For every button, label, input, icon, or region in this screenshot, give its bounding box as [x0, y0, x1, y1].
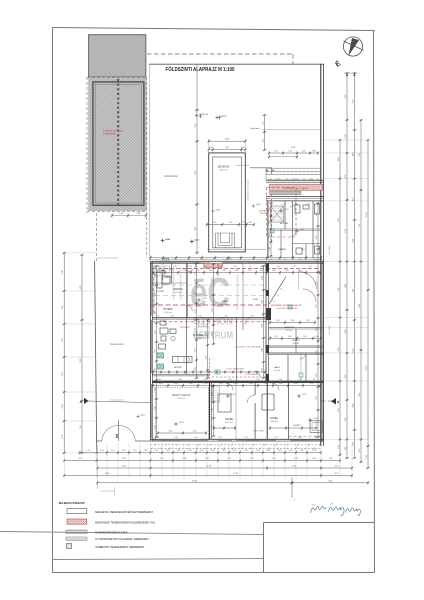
svg-text:7,15: 7,15 — [359, 224, 361, 228]
svg-text:1,30: 1,30 — [272, 270, 276, 272]
tiny text row — [268, 177, 319, 180]
svg-text:KIVÁLTÁS SZÜKSÉGES: KIVÁLTÁS SZÜKSÉGES — [277, 307, 299, 310]
svg-text:2,70: 2,70 — [316, 422, 318, 426]
svg-text:5,60: 5,60 — [338, 288, 340, 292]
svg-text:1,55: 1,55 — [338, 445, 340, 449]
left dim chain outer — [62, 252, 66, 454]
svg-text:1,45: 1,45 — [278, 379, 281, 381]
red dashed axis — [271, 194, 273, 243]
dashed plot lines around shed — [87, 77, 147, 258]
svg-text:1,05: 1,05 — [268, 259, 271, 261]
diagonal stair line — [269, 277, 287, 306]
svg-text:2,50: 2,50 — [206, 356, 208, 360]
svg-text:3,95: 3,95 — [345, 418, 347, 422]
svg-text:1,20: 1,20 — [188, 266, 191, 268]
svg-text:12,8 m2: 12,8 m2 — [194, 338, 203, 340]
svg-text:1,30: 1,30 — [196, 270, 200, 272]
svg-text:1,10: 1,10 — [222, 450, 226, 452]
svg-text:ÉTKEZŐ: ÉTKEZŐ — [163, 308, 172, 311]
svg-text:1,20: 1,20 — [194, 437, 197, 439]
svg-text:1,50: 1,50 — [288, 336, 292, 338]
title strip divider lines — [0, 532, 263, 560]
svg-text:1,50: 1,50 — [234, 383, 238, 385]
svg-text:ÚJ 30-AS YTONG FALAZAT: ÚJ 30-AS YTONG FALAZAT — [235, 346, 262, 349]
svg-text:1,90: 1,90 — [154, 407, 156, 411]
red dashed bottom right — [288, 435, 324, 437]
svg-text:1,90: 1,90 — [154, 426, 156, 430]
svg-text:4,85: 4,85 — [345, 284, 347, 288]
yard fence line vertical — [149, 64, 151, 261]
right wing wall lines — [266, 197, 324, 201]
covered terrace dashed outline — [155, 388, 208, 440]
pink door arcs — [299, 272, 317, 303]
bathtub — [310, 421, 322, 433]
svg-text:1,15: 1,15 — [155, 450, 159, 452]
gate door arcs — [102, 420, 136, 441]
building outer wall left — [151, 262, 153, 442]
svg-text:1,35: 1,35 — [244, 437, 247, 439]
svg-text:1,10: 1,10 — [200, 450, 204, 452]
svg-text:19,45: 19,45 — [192, 481, 198, 483]
svg-text:2,25: 2,25 — [160, 458, 164, 460]
red dashed partition marks — [209, 358, 266, 379]
svg-text:1,35: 1,35 — [288, 151, 292, 153]
building main front wall — [151, 260, 325, 263]
svg-text:ÚJ NYÍLÁSZÁRÓ: ÚJ NYÍLÁSZÁRÓ — [245, 373, 260, 376]
extra green markers — [288, 305, 303, 377]
svg-text:utca szint feletti kerítés: utca szint feletti kerítés — [98, 257, 118, 260]
svg-text:1,30: 1,30 — [269, 221, 271, 225]
red dashed under mid wall — [152, 321, 266, 323]
bottom dim chain 4 — [96, 466, 353, 470]
svg-text:+0,15: +0,15 — [202, 298, 208, 300]
svg-text:3,00: 3,00 — [211, 308, 213, 312]
svg-text:1,35: 1,35 — [282, 204, 285, 206]
fence dashed upper left — [96, 213, 98, 261]
svg-text:2,00: 2,00 — [194, 291, 196, 295]
svg-text:szomszéd épület: szomszéd épület — [236, 164, 250, 167]
svg-text:1,60: 1,60 — [261, 368, 263, 372]
svg-text:14,8 m2: 14,8 m2 — [270, 421, 279, 423]
svg-text:NAPPALI: NAPPALI — [173, 288, 183, 291]
svg-text:BONTANDÓ TETŐ+FALAK: BONTANDÓ TETŐ+FALAK — [284, 187, 309, 190]
grey infill band — [270, 191, 302, 195]
north arrow compass — [334, 37, 364, 69]
bottom dim chain 1 dashed — [151, 448, 322, 450]
svg-text:SZOBA: SZOBA — [270, 417, 278, 420]
svg-text:1,60: 1,60 — [211, 408, 213, 412]
concrete wall block — [266, 308, 271, 320]
svg-text:1,90: 1,90 — [329, 458, 333, 460]
svg-text:2,40: 2,40 — [261, 300, 263, 304]
svg-text:+0,05: +0,05 — [179, 422, 185, 424]
svg-text:1,25: 1,25 — [233, 266, 236, 268]
svg-text:2,30: 2,30 — [316, 282, 318, 286]
svg-text:4,15: 4,15 — [352, 197, 354, 201]
legend row 2 demolish — [67, 519, 156, 524]
bottom dim chain 2 — [79, 450, 323, 454]
neighbor building stub — [236, 164, 272, 174]
svg-text:1,30: 1,30 — [285, 270, 289, 272]
svg-text:ELŐTÉR: ELŐTÉR — [156, 290, 164, 293]
right wing top dim — [268, 147, 319, 155]
svg-text:2,30: 2,30 — [316, 259, 318, 263]
svg-text:2,00: 2,00 — [194, 348, 196, 352]
chain left ends — [97, 445, 114, 495]
legend row 1 existing — [67, 509, 153, 514]
svg-text:telekhatár: telekhatár — [250, 127, 260, 130]
svg-text:1,30: 1,30 — [209, 270, 213, 272]
left dim chain inner — [80, 254, 84, 454]
svg-text:1,30: 1,30 — [269, 208, 271, 212]
svg-text:1,50: 1,50 — [279, 383, 283, 385]
svg-text:+0,15: +0,15 — [166, 269, 172, 271]
yard bottom fence — [97, 440, 151, 442]
svg-text:6,10: 6,10 — [352, 349, 354, 353]
svg-text:8,85: 8,85 — [359, 304, 361, 308]
svg-text:BONTANDÓ: BONTANDÓ — [180, 326, 191, 329]
right extension lines — [325, 140, 370, 439]
yard labels — [98, 175, 178, 346]
svg-text:1,40: 1,40 — [312, 458, 316, 460]
svg-text:70: 70 — [317, 204, 319, 206]
svg-text:95: 95 — [157, 437, 159, 439]
svg-text:3,85: 3,85 — [338, 157, 340, 161]
pool steps — [216, 233, 235, 248]
svg-text:1,80: 1,80 — [194, 367, 196, 371]
level markers — [161, 114, 319, 426]
svg-text:ELŐTÉR: ELŐTÉR — [280, 222, 289, 225]
svg-text:1,10: 1,10 — [294, 204, 297, 206]
svg-text:4,10: 4,10 — [352, 239, 354, 243]
svg-text:2,90: 2,90 — [225, 147, 229, 149]
svg-text:1,30: 1,30 — [269, 234, 271, 238]
red annotations — [180, 187, 309, 376]
svg-text:burkolt felület: burkolt felület — [164, 175, 178, 178]
hatched shed block lower with inner outline — [88, 77, 146, 211]
svg-text:1,30: 1,30 — [222, 270, 226, 272]
svg-text:75: 75 — [157, 316, 159, 318]
svg-text:8,95: 8,95 — [359, 393, 361, 397]
svg-text:HALL: HALL — [222, 300, 228, 303]
right wing mid partition — [269, 327, 324, 329]
site boundary right (double line) — [321, 64, 324, 446]
svg-text:1,50: 1,50 — [249, 383, 253, 385]
sofa nappali — [157, 272, 170, 288]
svg-text:17,05: 17,05 — [233, 473, 239, 475]
svg-text:1,30: 1,30 — [235, 270, 239, 272]
svg-text:1,50: 1,50 — [291, 320, 295, 322]
svg-text:2,30: 2,30 — [316, 351, 318, 355]
svg-text:1,90: 1,90 — [154, 312, 156, 316]
svg-text:1,15: 1,15 — [308, 266, 311, 268]
hatched garage block upper — [89, 35, 146, 77]
top arrows of right chains — [344, 73, 358, 76]
red demolition label on shed — [103, 130, 123, 136]
svg-text:1,30: 1,30 — [298, 437, 301, 439]
central wall lower — [266, 383, 268, 439]
svg-text:14,2 m2: 14,2 m2 — [164, 312, 173, 314]
interior dim chains — [152, 202, 321, 438]
right wing upper thin lines — [266, 168, 321, 180]
svg-text:1,05: 1,05 — [274, 336, 278, 338]
signature blue handwriting — [311, 504, 361, 516]
svg-text:telekhatár: telekhatár — [328, 245, 331, 254]
svg-text:KERÍTÉS: KERÍTÉS — [260, 212, 268, 215]
small dim below shed — [111, 213, 147, 218]
svg-text:2,40: 2,40 — [261, 324, 263, 328]
green service markers — [158, 229, 275, 374]
svg-text:2,30: 2,30 — [316, 328, 318, 332]
svg-text:2,40: 2,40 — [169, 431, 173, 433]
svg-text:1,70: 1,70 — [262, 122, 264, 126]
svg-text:1,50: 1,50 — [204, 383, 208, 385]
svg-text:MEDENCE: MEDENCE — [218, 167, 230, 169]
red hatched wall segment — [204, 263, 222, 268]
svg-text:1,05: 1,05 — [144, 450, 148, 452]
svg-text:1,10: 1,10 — [267, 450, 271, 452]
corridor dim chain — [152, 370, 266, 374]
svg-text:15,60: 15,60 — [366, 366, 368, 371]
svg-text:4,90: 4,90 — [352, 404, 354, 408]
svg-text:2,30: 2,30 — [316, 213, 318, 217]
svg-text:2,20: 2,20 — [366, 455, 368, 459]
svg-text:+0,00: +0,00 — [165, 239, 171, 241]
section line A — [80, 398, 341, 405]
building outer wall bottom — [151, 439, 325, 441]
legend row 3 infill — [66, 529, 128, 534]
svg-text:4,70: 4,70 — [345, 95, 347, 99]
svg-text:+0,15: +0,15 — [284, 209, 290, 211]
red demolition hatched band — [270, 184, 323, 190]
svg-text:1,10: 1,10 — [300, 450, 304, 452]
svg-text:1,50: 1,50 — [264, 383, 268, 385]
center dotted axis of shed — [117, 79, 119, 205]
svg-text:2,30: 2,30 — [316, 397, 318, 401]
svg-text:1,70: 1,70 — [310, 383, 314, 385]
svg-text:FÜRDŐ: FÜRDŐ — [292, 339, 300, 342]
svg-text:1,20: 1,20 — [256, 379, 259, 381]
svg-text:1,85: 1,85 — [345, 447, 347, 451]
pool — [209, 153, 246, 252]
leader label telekhatar — [250, 127, 321, 130]
svg-text:4,2 m2: 4,2 m2 — [286, 330, 292, 332]
svg-text:1,50: 1,50 — [276, 320, 280, 322]
bathroom fixtures — [159, 321, 177, 349]
svg-text:1,40: 1,40 — [174, 437, 177, 439]
svg-text:1,10: 1,10 — [122, 450, 126, 452]
svg-text:1,70: 1,70 — [194, 310, 196, 314]
red dashed outline demolished — [267, 187, 297, 237]
svg-text:2,30: 2,30 — [250, 458, 254, 460]
ceiling beam dashed lines — [155, 285, 265, 296]
page border frame — [53, 28, 375, 573]
small vertical dim near wing — [262, 114, 266, 151]
svg-text:1,25: 1,25 — [274, 437, 277, 439]
svg-text:0,75: 0,75 — [241, 222, 245, 224]
svg-text:32,6 m2: 32,6 m2 — [174, 292, 183, 294]
svg-text:1,20: 1,20 — [283, 259, 286, 261]
interior wall lower horizontal thick — [153, 381, 325, 383]
gray wall block — [163, 258, 169, 261]
svg-text:1,20: 1,20 — [157, 270, 161, 272]
svg-text:0,45: 0,45 — [209, 147, 213, 149]
svg-text:60: 60 — [271, 204, 273, 206]
svg-text:GARDR.: GARDR. — [164, 276, 172, 279]
svg-text:7,00: 7,00 — [359, 153, 361, 157]
svg-text:6,35: 6,35 — [338, 347, 340, 351]
svg-text:FÖLDSZINTI ALAPRAJZ M 1:100: FÖLDSZINTI ALAPRAJZ M 1:100 — [166, 66, 235, 73]
svg-text:3,30: 3,30 — [345, 135, 347, 139]
svg-text:90: 90 — [159, 266, 161, 268]
svg-text:1,03: 1,03 — [100, 450, 104, 452]
right wing inner dim chain — [269, 336, 322, 340]
svg-text:26,3 m2: 26,3 m2 — [177, 398, 186, 400]
red demolished slab line — [151, 304, 301, 306]
svg-text:4,30: 4,30 — [345, 330, 347, 334]
door swings — [186, 201, 306, 403]
yard fence line — [196, 64, 198, 110]
svg-text:85: 85 — [315, 437, 317, 439]
svg-text:+0,05: +0,05 — [140, 415, 145, 417]
left extension lines — [62, 253, 96, 453]
svg-text:1,50: 1,50 — [159, 383, 163, 385]
red dashed along left wall — [153, 266, 155, 316]
svg-text:1,90: 1,90 — [154, 331, 156, 335]
boundary rotated labels — [328, 245, 331, 334]
svg-text:1,10: 1,10 — [211, 450, 215, 452]
svg-text:2,50: 2,50 — [206, 331, 208, 335]
interior chain above wall — [149, 256, 322, 260]
hall vertical chains — [211, 263, 215, 345]
right wing partition walls — [268, 201, 321, 258]
svg-text:FÜRDŐ: FÜRDŐ — [293, 424, 301, 427]
svg-text:1,20: 1,20 — [306, 204, 309, 206]
svg-text:1,10: 1,10 — [278, 450, 282, 452]
svg-text:1,40: 1,40 — [269, 247, 271, 251]
svg-text:95: 95 — [313, 259, 315, 261]
kitchen counter — [173, 357, 193, 363]
svg-text:42,0 m2: 42,0 m2 — [220, 170, 229, 172]
svg-text:1,10: 1,10 — [166, 450, 170, 452]
svg-text:95: 95 — [249, 266, 251, 268]
svg-text:1,10: 1,10 — [111, 450, 115, 452]
svg-text:1,30: 1,30 — [260, 270, 264, 272]
interior partitions left wing — [153, 264, 289, 440]
red note near wall — [259, 210, 270, 216]
svg-text:80: 80 — [261, 266, 263, 268]
yard left boundary — [95, 261, 97, 451]
svg-text:1,90: 1,90 — [154, 350, 156, 354]
interior wall mid horizontal — [153, 318, 267, 320]
svg-text:85: 85 — [159, 379, 161, 381]
svg-text:2,80: 2,80 — [352, 442, 354, 446]
door arc right wing mid — [290, 231, 297, 238]
svg-text:1,35: 1,35 — [298, 379, 301, 381]
svg-text:1,60: 1,60 — [303, 336, 307, 338]
svg-text:1,50: 1,50 — [213, 222, 217, 224]
svg-text:1,40: 1,40 — [312, 450, 316, 452]
svg-text:1,10: 1,10 — [133, 450, 137, 452]
bottom dim chain 5 — [63, 473, 353, 477]
svg-text:6,8 m2: 6,8 m2 — [293, 343, 300, 345]
svg-text:1,10: 1,10 — [248, 270, 252, 272]
svg-text:90: 90 — [313, 379, 315, 381]
svg-text:FEDETT TERASZ: FEDETT TERASZ — [172, 394, 191, 397]
yard mid dim chain — [206, 222, 255, 226]
svg-text:ÚJ GK. VÁLASZFAL: ÚJ GK. VÁLASZFAL — [226, 368, 245, 371]
svg-text:2,30: 2,30 — [193, 431, 197, 433]
svg-text:0,45: 0,45 — [242, 147, 246, 149]
gardrob label — [284, 326, 295, 332]
yard dim vertical — [195, 109, 199, 254]
svg-text:1,60: 1,60 — [178, 379, 181, 381]
plus marks — [266, 169, 275, 172]
title FOLDSZINTI ALAPRAJZ — [166, 66, 235, 73]
svg-text:5,70: 5,70 — [352, 100, 354, 104]
svg-text:2,40: 2,40 — [261, 276, 263, 280]
svg-text:+0,15: +0,15 — [231, 394, 237, 396]
svg-text:melléképület: melléképület — [103, 133, 117, 136]
terrace edge line — [207, 248, 266, 250]
watermark logo — [190, 269, 233, 342]
right wing lower partition — [267, 353, 324, 355]
bottom dim chain 3 — [63, 458, 341, 462]
svg-text:1,80: 1,80 — [211, 425, 213, 429]
svg-text:1,30: 1,30 — [183, 270, 187, 272]
inner sheet top line — [149, 63, 324, 65]
svg-text:1,10: 1,10 — [177, 450, 181, 452]
svg-text:1,10: 1,10 — [233, 450, 237, 452]
svg-text:tervezett kerítés: tervezett kerítés — [110, 399, 124, 402]
svg-text:1,20: 1,20 — [244, 450, 248, 452]
svg-text:1,30: 1,30 — [250, 316, 253, 318]
svg-text:2,30: 2,30 — [183, 458, 187, 460]
svg-text:1,40: 1,40 — [170, 316, 173, 318]
terrace railing posts — [268, 171, 320, 174]
bottom dim chain 0 dashed — [151, 444, 322, 446]
dining table — [197, 324, 209, 338]
svg-text:15,00: 15,00 — [366, 213, 368, 218]
interior wall corridor — [153, 375, 211, 376]
svg-text:+0,15: +0,15 — [302, 394, 308, 396]
svg-text:8,30: 8,30 — [338, 218, 340, 222]
dashed boundary line top — [147, 54, 293, 64]
svg-text:1,30: 1,30 — [218, 437, 221, 439]
svg-text:MOSÓK.: MOSÓK. — [174, 366, 183, 369]
svg-text:1,90: 1,90 — [154, 388, 156, 392]
level markers yard — [161, 114, 260, 243]
svg-text:9,2 m2: 9,2 m2 — [222, 304, 229, 306]
svg-text:1,30: 1,30 — [276, 266, 279, 268]
svg-text:1,80: 1,80 — [224, 316, 227, 318]
svg-text:előregyártott medencetest: előregyártott medencetest — [247, 179, 250, 201]
extension lines down — [64, 444, 352, 479]
svg-text:+0,00: +0,00 — [203, 114, 209, 116]
stair cross — [271, 206, 284, 222]
svg-text:1,50: 1,50 — [219, 383, 223, 385]
red demolished wall dashed — [152, 268, 320, 270]
below-chain datum mark — [290, 477, 296, 501]
svg-text:1,35: 1,35 — [203, 266, 206, 268]
svg-text:2,30: 2,30 — [316, 305, 318, 309]
svg-text:JELMAGYARÁZAT:: JELMAGYARÁZAT: — [58, 500, 85, 505]
svg-text:1,40: 1,40 — [298, 270, 302, 272]
svg-text:1,90: 1,90 — [154, 274, 156, 278]
svg-text:ÚJ ÁTTÖRÉS: ÚJ ÁTTÖRÉS — [252, 430, 265, 433]
central thick wall — [266, 262, 269, 383]
entry door swing — [222, 258, 232, 267]
